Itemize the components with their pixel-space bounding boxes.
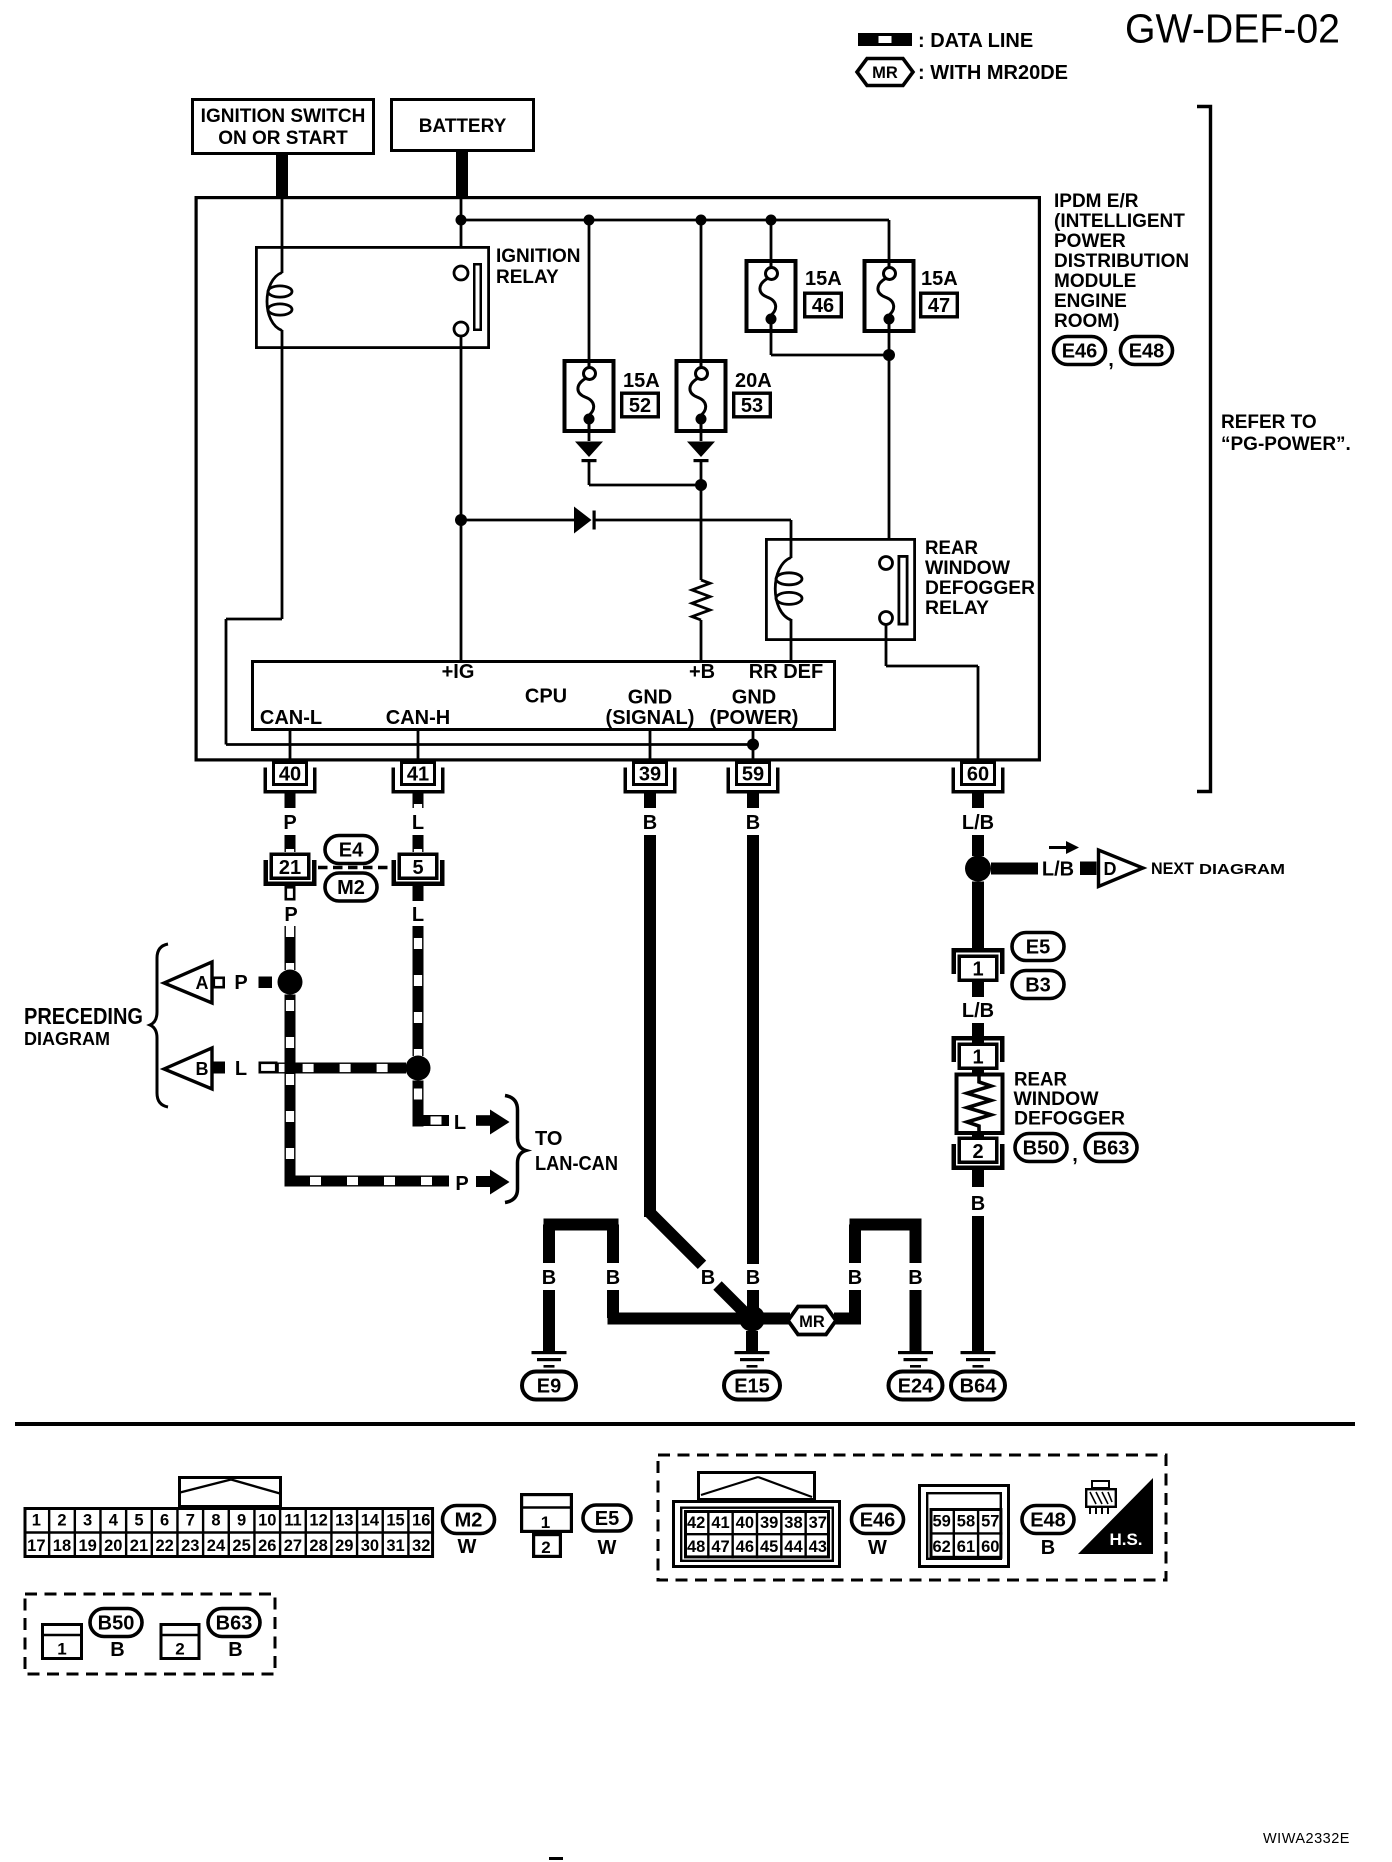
svg-text:3: 3 bbox=[83, 1512, 92, 1530]
svg-text:DISTRIBUTION: DISTRIBUTION bbox=[1054, 251, 1189, 272]
svg-text:28: 28 bbox=[309, 1537, 327, 1555]
svg-text:15A: 15A bbox=[805, 268, 842, 290]
node ig branch bbox=[455, 514, 467, 526]
svg-text:21: 21 bbox=[130, 1537, 148, 1555]
svg-text:E5: E5 bbox=[1026, 937, 1050, 959]
svg-text:IPDM E/R: IPDM E/R bbox=[1054, 191, 1139, 212]
svg-text:23: 23 bbox=[181, 1537, 199, 1555]
node fuse46-47 join bbox=[883, 349, 895, 361]
label L/B (below E5) bbox=[962, 1000, 994, 1022]
arrow D next diagram bbox=[1099, 850, 1286, 887]
svg-text:14: 14 bbox=[361, 1512, 380, 1530]
connector oval E5 (table) bbox=[583, 1505, 631, 1531]
svg-text:M2: M2 bbox=[455, 1510, 483, 1532]
wire E24 n-shape bbox=[849, 1219, 922, 1325]
connector oval E4 bbox=[325, 836, 377, 864]
svg-text:46: 46 bbox=[736, 1538, 754, 1556]
svg-text:47: 47 bbox=[928, 295, 950, 317]
svg-text:2: 2 bbox=[57, 1512, 66, 1530]
svg-text:29: 29 bbox=[335, 1537, 353, 1555]
footer code WIWA2332E bbox=[1263, 1831, 1350, 1847]
IPDM label bbox=[1054, 191, 1189, 332]
svg-text:1: 1 bbox=[57, 1640, 66, 1659]
dashed link E4/M2 bbox=[318, 866, 392, 869]
label B (above node) bbox=[746, 1267, 760, 1289]
fuse 53 20A bbox=[677, 359, 772, 433]
label L/B (next diagram) bbox=[1042, 859, 1074, 881]
connector pin 39 bbox=[624, 763, 677, 794]
label L (below 5) bbox=[412, 904, 424, 926]
svg-text:L: L bbox=[412, 904, 424, 926]
wire E9 right lower bbox=[607, 1290, 746, 1325]
connector pin 41 bbox=[392, 763, 445, 794]
svg-text:IGNITION SWITCH: IGNITION SWITCH bbox=[201, 106, 366, 127]
svg-text:38: 38 bbox=[784, 1514, 802, 1532]
defogger connector 2 bbox=[952, 1138, 1005, 1170]
H.S. icon bbox=[1078, 1478, 1153, 1554]
resistor R1 bbox=[692, 580, 710, 660]
svg-text:: WITH MR20DE: : WITH MR20DE bbox=[918, 62, 1068, 84]
wire fuse47 output bbox=[888, 333, 891, 557]
svg-text:48: 48 bbox=[687, 1538, 705, 1556]
svg-text:E9: E9 bbox=[537, 1376, 561, 1398]
svg-text:B: B bbox=[746, 1267, 760, 1289]
svg-text:W: W bbox=[598, 1537, 617, 1559]
wire LB below E5 bbox=[972, 982, 984, 997]
svg-text:B: B bbox=[196, 1059, 209, 1079]
node B bbox=[406, 1056, 431, 1081]
wire ignition relay coil ground bbox=[226, 349, 753, 745]
svg-text:61: 61 bbox=[957, 1538, 975, 1556]
connector oval B3 bbox=[1012, 971, 1064, 999]
svg-text:E48: E48 bbox=[1030, 1510, 1066, 1532]
svg-text:E48: E48 bbox=[1129, 341, 1165, 363]
svg-text:ON OR START: ON OR START bbox=[218, 128, 348, 149]
svg-text:17: 17 bbox=[27, 1537, 45, 1555]
wire fuse46 output bbox=[771, 333, 889, 355]
wire L below node B bbox=[413, 1081, 424, 1127]
defogger connector 1 bbox=[952, 1036, 1005, 1069]
svg-text:W: W bbox=[458, 1536, 477, 1558]
svg-text:1: 1 bbox=[972, 1047, 983, 1069]
connector oval E48 (IPDM) bbox=[1121, 337, 1173, 365]
wire CAN-L stub bbox=[289, 731, 292, 761]
svg-text:E46: E46 bbox=[860, 1510, 896, 1532]
wire defogger 1 to element bbox=[972, 1070, 984, 1073]
svg-text:2: 2 bbox=[175, 1640, 184, 1659]
label L (arrow B row) bbox=[235, 1058, 247, 1080]
svg-text:31: 31 bbox=[386, 1537, 404, 1555]
diode D1 horizontal bbox=[461, 507, 791, 534]
svg-text:W: W bbox=[868, 1537, 887, 1559]
svg-text:39: 39 bbox=[760, 1514, 778, 1532]
svg-text:REAR: REAR bbox=[1014, 1070, 1067, 1091]
svg-text:L: L bbox=[412, 812, 424, 834]
label B (pin59) bbox=[746, 812, 760, 834]
svg-text:RELAY: RELAY bbox=[496, 267, 559, 288]
ignition relay coil bbox=[267, 273, 292, 350]
svg-text:16: 16 bbox=[412, 1512, 430, 1530]
node battery bus fuse46 bbox=[766, 215, 777, 226]
node coil ground join bbox=[747, 739, 759, 751]
svg-text:DIAGRAM: DIAGRAM bbox=[1199, 861, 1285, 878]
svg-text:7: 7 bbox=[186, 1512, 195, 1530]
wire diode53 down bbox=[700, 462, 703, 580]
svg-text:20: 20 bbox=[104, 1537, 122, 1555]
svg-text:H.S.: H.S. bbox=[1109, 1530, 1142, 1549]
svg-text:P: P bbox=[283, 812, 296, 834]
wire diode52 to node bbox=[589, 462, 701, 485]
ground oval E24 bbox=[889, 1372, 943, 1400]
connector pin 59 bbox=[727, 763, 780, 794]
svg-text:DEFOGGER: DEFOGGER bbox=[1014, 1109, 1125, 1130]
svg-text:,: , bbox=[1108, 349, 1114, 371]
svg-text:11: 11 bbox=[284, 1512, 301, 1530]
wire P down to node A bbox=[285, 926, 296, 970]
svg-text:GND: GND bbox=[628, 687, 672, 709]
rear window defogger relay box bbox=[766, 539, 914, 639]
svg-text:RELAY: RELAY bbox=[925, 598, 989, 619]
svg-text:L/B: L/B bbox=[962, 812, 994, 834]
svg-text:B63: B63 bbox=[216, 1613, 253, 1635]
wire P white stub below 21 bbox=[286, 887, 294, 899]
connector table M2 grid bbox=[24, 1507, 435, 1558]
node battery bus fuse53 bbox=[696, 215, 707, 226]
wire L down to node B bbox=[413, 926, 424, 1056]
svg-text:DIAGRAM: DIAGRAM bbox=[24, 1029, 110, 1049]
wire B stub pin39 bbox=[644, 793, 656, 808]
wire E24 lower bbox=[910, 1290, 922, 1353]
ignition relay box bbox=[256, 247, 488, 347]
svg-text:L: L bbox=[454, 1112, 466, 1134]
svg-text:10: 10 bbox=[258, 1512, 276, 1530]
svg-text:TO: TO bbox=[535, 1128, 562, 1150]
svg-text:POWER: POWER bbox=[1054, 231, 1126, 252]
wire GND power stub bbox=[752, 731, 755, 761]
diode D52 bbox=[575, 433, 603, 462]
fuse 47 15A bbox=[865, 259, 958, 333]
wire stub to node A bbox=[259, 977, 273, 989]
svg-text:B: B bbox=[542, 1267, 556, 1289]
svg-text:5: 5 bbox=[412, 857, 423, 879]
svg-text:MR: MR bbox=[872, 64, 898, 82]
svg-text:27: 27 bbox=[284, 1537, 302, 1555]
wire B pin59 down bbox=[747, 835, 759, 1264]
svg-text:,: , bbox=[1072, 1144, 1078, 1166]
connector table B63 bbox=[160, 1625, 201, 1659]
svg-text:B50: B50 bbox=[1023, 1138, 1060, 1160]
wire P stub pin40 bbox=[285, 793, 296, 808]
wire B pin39 down bbox=[644, 835, 706, 1269]
page mark bbox=[549, 1857, 563, 1860]
wire LB to node bbox=[972, 835, 984, 856]
wire E9 n-shape bbox=[543, 1219, 619, 1264]
wire MR to E24 branch bbox=[834, 1313, 861, 1325]
node battery bus fuse52 bbox=[584, 215, 595, 226]
svg-text:57: 57 bbox=[981, 1513, 999, 1531]
preceding diagram brace bbox=[150, 944, 168, 1107]
svg-text:L/B: L/B bbox=[1042, 859, 1074, 881]
connector 1 (E5/B3) bbox=[952, 948, 1005, 981]
connector table E46 grid bbox=[684, 1510, 830, 1558]
svg-text:B: B bbox=[701, 1267, 715, 1289]
svg-text:8: 8 bbox=[211, 1512, 220, 1530]
svg-text:47: 47 bbox=[711, 1538, 729, 1556]
connector oval E46 (table) bbox=[852, 1506, 904, 1534]
dashed box E46/E48 bbox=[658, 1455, 1166, 1580]
comma mid bbox=[1072, 1144, 1078, 1166]
svg-text:18: 18 bbox=[53, 1537, 71, 1555]
connector 5 (E4/M2) bbox=[392, 854, 445, 886]
svg-text:B: B bbox=[1041, 1537, 1055, 1559]
ignition switch box bbox=[193, 100, 374, 154]
svg-text:CPU: CPU bbox=[525, 686, 567, 708]
label B (E48) bbox=[1041, 1537, 1055, 1559]
separator line bbox=[15, 1422, 1355, 1426]
svg-text:9: 9 bbox=[237, 1512, 246, 1530]
connector oval E48 (table) bbox=[1022, 1506, 1074, 1534]
defogger relay coil bbox=[775, 538, 802, 660]
svg-text:26: 26 bbox=[258, 1537, 276, 1555]
wire LB stub pin60 bbox=[972, 793, 984, 808]
ground E9 bbox=[532, 1351, 567, 1368]
ground oval E9 bbox=[522, 1372, 576, 1400]
svg-text:22: 22 bbox=[155, 1537, 173, 1555]
wire ignition switch to IPDM bbox=[276, 155, 288, 197]
preceding diagram label bbox=[24, 1003, 143, 1049]
label L (pin41) bbox=[412, 812, 424, 834]
wire node to next-diagram bbox=[991, 863, 1038, 875]
legend data-line symbol bbox=[858, 30, 1033, 52]
wire B64 down bbox=[972, 1216, 984, 1353]
svg-text:B63: B63 bbox=[1093, 1138, 1130, 1160]
svg-text:32: 32 bbox=[412, 1537, 430, 1555]
label P (arrow A row) bbox=[234, 972, 247, 994]
svg-text:60: 60 bbox=[981, 1538, 999, 1556]
fuse 46 15A bbox=[747, 259, 842, 333]
svg-text:15: 15 bbox=[386, 1512, 404, 1530]
refer to PG-POWER bracket bbox=[1197, 107, 1351, 792]
svg-text:30: 30 bbox=[361, 1537, 379, 1555]
node ground junction bbox=[739, 1306, 765, 1332]
node LB bbox=[965, 856, 991, 882]
svg-text:“PG-POWER”.: “PG-POWER”. bbox=[1221, 434, 1351, 455]
svg-text:E4: E4 bbox=[339, 840, 364, 862]
svg-text:43: 43 bbox=[809, 1538, 827, 1556]
svg-text:12: 12 bbox=[309, 1512, 327, 1530]
wire ignition switch to coil bbox=[281, 196, 284, 273]
label W (E5) bbox=[598, 1537, 617, 1559]
wire P corner to lan-can bbox=[285, 1176, 450, 1187]
wire L stub pin41 bbox=[413, 793, 424, 808]
connector oval B50 (mid) bbox=[1015, 1134, 1067, 1162]
svg-text:40: 40 bbox=[279, 764, 301, 786]
svg-text:P: P bbox=[284, 904, 297, 926]
svg-text:(SIGNAL): (SIGNAL) bbox=[606, 707, 695, 729]
svg-text:E46: E46 bbox=[1062, 341, 1098, 363]
svg-text:40: 40 bbox=[736, 1514, 754, 1532]
arrow B (preceding diagram) bbox=[164, 1048, 225, 1089]
wire CAN-H stub bbox=[417, 731, 420, 761]
svg-text:6: 6 bbox=[160, 1512, 169, 1530]
battery box bbox=[392, 100, 534, 151]
connector pin 60 bbox=[952, 763, 1005, 794]
connector oval E46 (IPDM) bbox=[1054, 337, 1106, 365]
wire LB node down bbox=[972, 882, 984, 949]
CPU box bbox=[253, 662, 835, 730]
svg-text:E24: E24 bbox=[898, 1376, 934, 1398]
svg-text:39: 39 bbox=[639, 764, 661, 786]
label B (diagonal) bbox=[701, 1267, 715, 1289]
svg-text:41: 41 bbox=[711, 1514, 729, 1532]
ground E15 bbox=[735, 1351, 770, 1368]
svg-text:WINDOW: WINDOW bbox=[925, 558, 1010, 579]
label P (below 21) bbox=[284, 904, 297, 926]
svg-text:13: 13 bbox=[335, 1512, 353, 1530]
to lan-can label bbox=[535, 1128, 618, 1175]
svg-text:58: 58 bbox=[957, 1513, 975, 1531]
svg-text:20A: 20A bbox=[735, 370, 772, 392]
svg-text:52: 52 bbox=[629, 395, 651, 417]
svg-text:1: 1 bbox=[541, 1513, 550, 1532]
svg-text:L/B: L/B bbox=[962, 1000, 994, 1022]
svg-text:L: L bbox=[235, 1058, 247, 1080]
connector table E5 bbox=[520, 1495, 573, 1557]
wire L stub below 5 bbox=[413, 886, 424, 901]
label B (B50) bbox=[110, 1639, 124, 1661]
small arrow above D bbox=[1049, 841, 1079, 854]
wire B-row white block bbox=[260, 1063, 276, 1072]
svg-text:+B: +B bbox=[689, 661, 715, 683]
svg-text:21: 21 bbox=[279, 857, 301, 879]
svg-text:ENGINE: ENGINE bbox=[1054, 291, 1127, 312]
ignition relay label bbox=[496, 246, 580, 288]
fuse 52 15A bbox=[565, 359, 660, 433]
svg-text:B3: B3 bbox=[1025, 975, 1051, 997]
svg-text:B64: B64 bbox=[960, 1376, 998, 1398]
svg-text:E5: E5 bbox=[595, 1508, 619, 1530]
connector table E48 grid bbox=[930, 1508, 1003, 1559]
wire node to E15 ground bbox=[746, 1331, 758, 1353]
svg-text:59: 59 bbox=[932, 1513, 950, 1531]
ignition relay contact bbox=[454, 264, 481, 336]
svg-text:DEFOGGER: DEFOGGER bbox=[925, 578, 1035, 599]
svg-text:M2: M2 bbox=[337, 877, 365, 899]
svg-text:46: 46 bbox=[812, 295, 834, 317]
defogger relay label bbox=[925, 538, 1035, 619]
label B (B63) bbox=[228, 1639, 242, 1661]
connector oval B63 (table) bbox=[208, 1609, 260, 1637]
wire L to lan-can arrow bbox=[413, 1115, 450, 1126]
lan-can brace bbox=[505, 1096, 526, 1203]
label B (E9 left) bbox=[542, 1267, 556, 1289]
wire to defogger relay coil bbox=[790, 520, 793, 539]
svg-text:B: B bbox=[643, 812, 657, 834]
wire stub before D bbox=[1080, 862, 1097, 876]
dashed box B50/B63 bbox=[25, 1594, 275, 1674]
connector table E46 hood bbox=[699, 1473, 815, 1500]
svg-text:1: 1 bbox=[972, 959, 983, 981]
label L (lan-can) bbox=[454, 1112, 466, 1134]
svg-text:P: P bbox=[234, 972, 247, 994]
label B (E24 left) bbox=[848, 1267, 862, 1289]
label W (E46) bbox=[868, 1537, 887, 1559]
svg-text:(POWER): (POWER) bbox=[710, 707, 799, 729]
svg-text:B: B bbox=[848, 1267, 862, 1289]
svg-text:A: A bbox=[196, 973, 209, 993]
wire B pin59 lower bbox=[747, 1290, 759, 1310]
svg-text:RR DEF: RR DEF bbox=[749, 661, 823, 683]
svg-text:WINDOW: WINDOW bbox=[1014, 1089, 1099, 1110]
connector oval B50 (table) bbox=[90, 1609, 142, 1637]
svg-text:4: 4 bbox=[109, 1512, 119, 1530]
svg-text:LAN-CAN: LAN-CAN bbox=[535, 1153, 618, 1175]
svg-text:2: 2 bbox=[972, 1141, 983, 1163]
ground B64 bbox=[961, 1351, 996, 1368]
svg-text:2: 2 bbox=[541, 1538, 550, 1557]
svg-text:44: 44 bbox=[784, 1538, 803, 1556]
label P (pin40) bbox=[283, 812, 296, 834]
svg-text:15A: 15A bbox=[623, 370, 660, 392]
IPDM E/R outer box bbox=[196, 198, 1039, 760]
connector table E48 outer bbox=[920, 1486, 1009, 1567]
svg-text:D: D bbox=[1104, 859, 1117, 879]
svg-text:PRECEDING: PRECEDING bbox=[24, 1003, 143, 1029]
wire B stub pin59 bbox=[747, 793, 759, 808]
connector oval E5 (mid) bbox=[1012, 933, 1064, 961]
defogger relay contact bbox=[880, 556, 908, 624]
svg-text:53: 53 bbox=[741, 395, 763, 417]
legend MR hexagon with-MR20DE bbox=[857, 59, 1068, 86]
rear window defogger element bbox=[957, 1075, 1003, 1134]
connector table M2 hood bbox=[180, 1478, 281, 1507]
wire defogger 2 stub bbox=[972, 1170, 984, 1187]
wire battery bus bbox=[461, 220, 889, 260]
connector pin 40 bbox=[264, 763, 317, 794]
label L/B (pin60) bbox=[962, 812, 994, 834]
wire P to connector 21 bbox=[285, 835, 296, 852]
svg-text:NEXT: NEXT bbox=[1151, 859, 1195, 878]
wire B-row stripe to node B bbox=[278, 1063, 407, 1074]
wire element to defogger 2 bbox=[972, 1135, 984, 1138]
svg-text:19: 19 bbox=[78, 1537, 96, 1555]
arrow to lan-can P bbox=[476, 1170, 510, 1195]
svg-text:42: 42 bbox=[687, 1514, 705, 1532]
connector 21 (E4/M2) bbox=[264, 854, 317, 886]
wire fuse46 feed bbox=[770, 220, 773, 260]
connector oval M2 (table) bbox=[443, 1506, 495, 1534]
wire L to connector 5 bbox=[413, 835, 424, 852]
svg-text:P: P bbox=[455, 1173, 468, 1195]
label B (E9 right) bbox=[606, 1267, 620, 1289]
svg-text:CAN-L: CAN-L bbox=[260, 707, 322, 729]
connector oval M2 (mid) bbox=[325, 873, 377, 901]
svg-text:GW-DEF-02: GW-DEF-02 bbox=[1125, 6, 1340, 52]
wire GND signal stub bbox=[649, 731, 652, 761]
node battery bus at battery bbox=[456, 215, 467, 226]
wire battery to IPDM bbox=[456, 152, 468, 197]
svg-text:25: 25 bbox=[232, 1537, 250, 1555]
CPU pin labels bbox=[260, 661, 823, 729]
svg-text:B: B bbox=[908, 1267, 922, 1289]
svg-text:45: 45 bbox=[760, 1538, 778, 1556]
svg-text:24: 24 bbox=[207, 1537, 226, 1555]
wire E9 left lower bbox=[543, 1290, 555, 1353]
wire B diagonal to ground node bbox=[713, 1281, 754, 1322]
svg-text:1: 1 bbox=[32, 1512, 41, 1530]
wire relay contact to diode bbox=[460, 336, 463, 660]
label P (lan-can) bbox=[455, 1173, 468, 1195]
